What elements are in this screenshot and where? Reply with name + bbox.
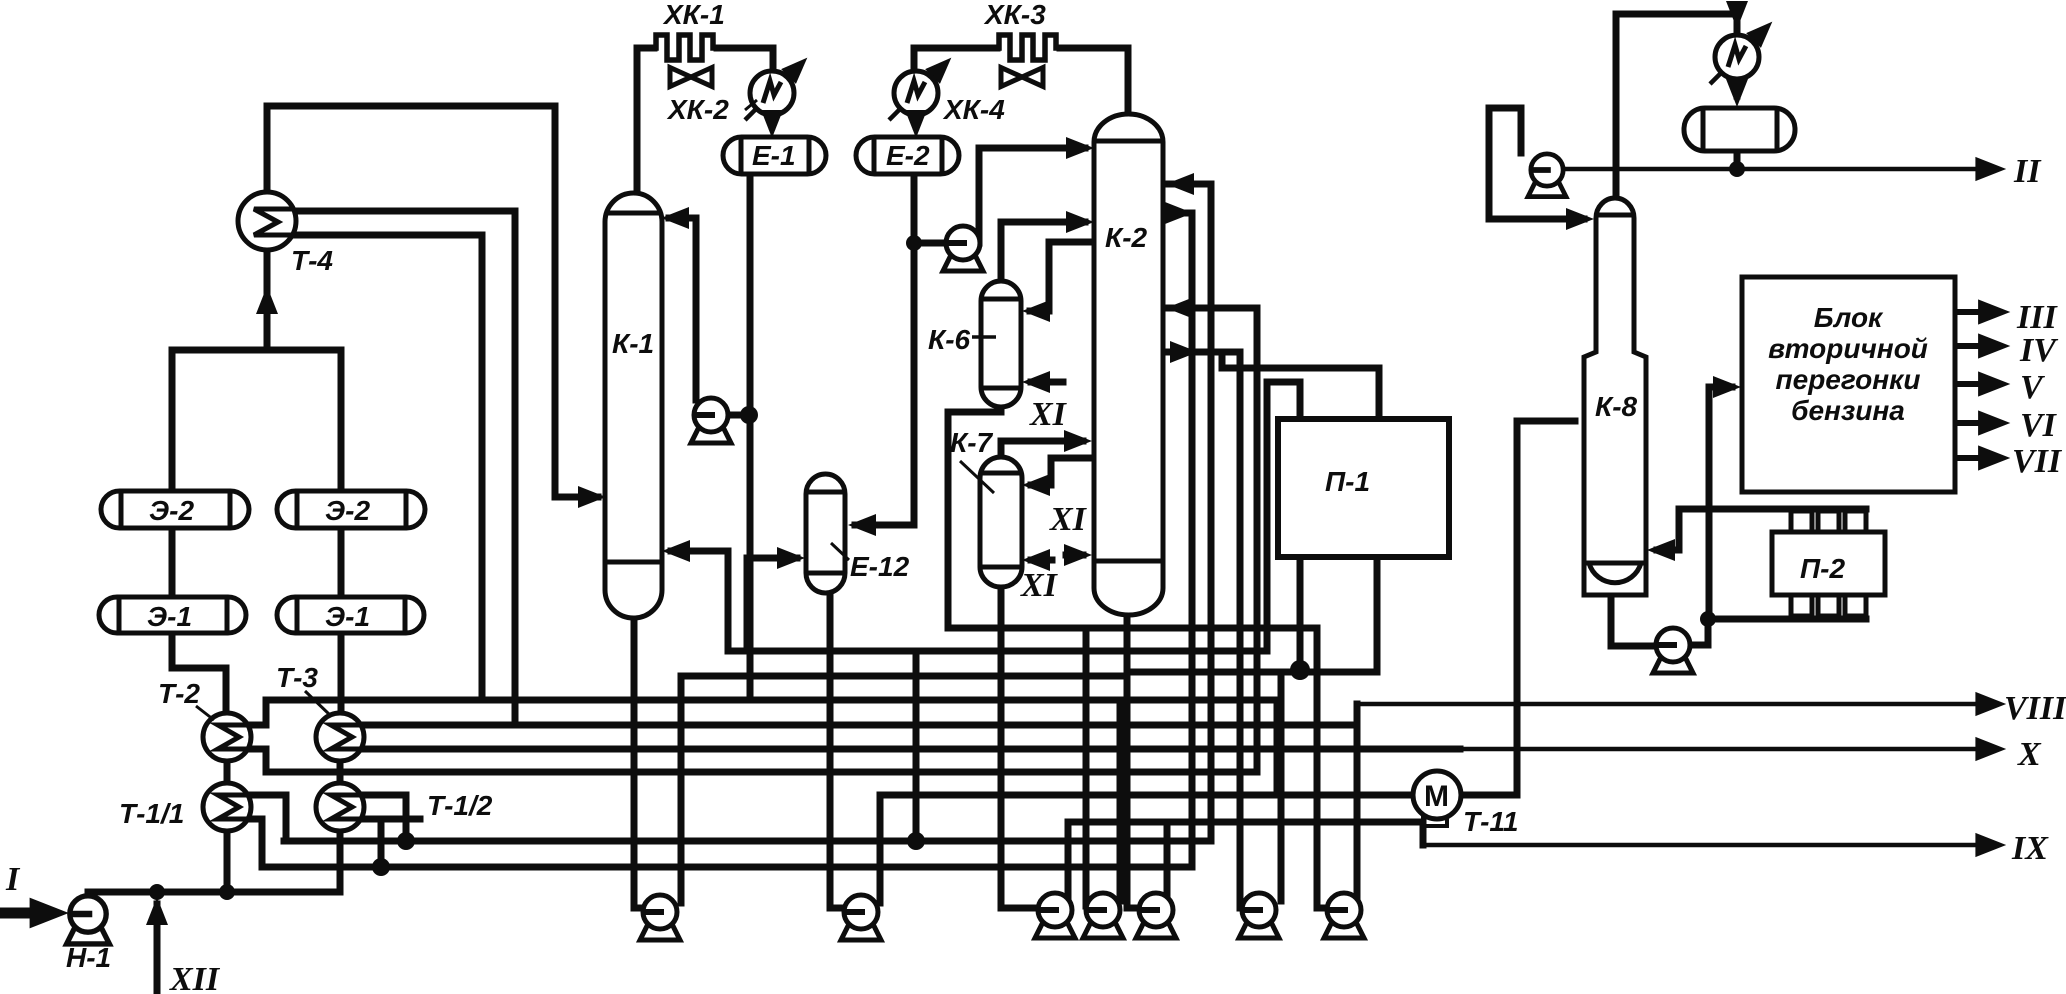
svg-text:Е-2: Е-2 [886,140,930,171]
arrowhead output IX [1975,833,2006,857]
wire K-1 overhead to XK-1 [637,48,654,196]
wire bus H1 [266,697,1277,704]
arrowhead stream I into H-1 [30,898,69,929]
node junction E-1 drain pump [740,406,758,424]
arrowhead K-2 draw into K-7 [1022,474,1050,496]
svg-text:XI: XI [1020,567,1059,604]
svg-text:V: V [2020,369,2045,406]
wire T-1/2 upper pipe [362,795,406,841]
svg-text:ХК-3: ХК-3 [983,0,1046,30]
column K-2 [1094,114,1163,615]
wire T-1/1 lower pipe [250,819,262,867]
pump K-8 reflux [1528,154,1566,197]
wire T-1/2 lower branch to H6 [378,819,385,867]
wire riser to gasoline block [1709,387,1732,619]
node junction P-1 outlet [1290,660,1310,680]
svg-text:Т-2: Т-2 [158,678,200,709]
svg-text:М: М [1424,780,1449,813]
wire K-6 bottoms bus H628 [948,407,1317,628]
arrowhead into E-2 [905,110,927,138]
node junction E-2 drain pump [906,235,922,251]
svg-text:Т-11: Т-11 [1463,806,1519,837]
wire H628 drop to pump4 [1083,628,1090,906]
arrowhead output X [1975,737,2006,761]
electrodehydrator E-2 left [101,491,249,528]
electrodehydrator E-2 right [277,491,425,528]
arrowhead return into K-2 lower [1166,297,1194,319]
wire branch to H5 [913,651,920,841]
arrowhead XI into K-7 [1022,549,1050,571]
wire XK-3 to K-2 [1060,48,1128,112]
pump K-8 bottoms [1653,628,1693,673]
wire T-4 lower pipe to bus H1 [294,235,482,700]
wire P-1 riser left [1267,382,1300,651]
svg-text:VI: VI [2020,407,2058,444]
wire main feed from H-1 [88,889,340,896]
wire K-1 reflux pump discharge [669,218,696,400]
svg-text:бензина: бензина [1791,395,1905,426]
arrowhead K-2 side draw upper [1165,202,1193,224]
wire XK-2 into E-1 [769,116,776,126]
heat exchanger T-2 [203,713,251,761]
wire K-2 bottoms to pump5 [1127,585,1141,908]
pump K-7 bottoms [1035,893,1075,938]
wire K-7 overhead to K-2 [1001,441,1083,457]
svg-text:вторичной: вторичной [1768,333,1928,364]
svg-text:XI: XI [1049,501,1088,538]
wire P-1 bottom left outlet [1297,557,1304,670]
arrowhead K-6 overhead into K-2 [1066,211,1094,233]
svg-text:VIII: VIII [2004,690,2066,727]
wire K-2 side draw to pump6 [1240,352,1244,908]
valve XK-1 [670,68,712,87]
wire T-2 upper pipe [250,703,266,725]
pump K-1 reflux [691,398,731,443]
stripper K-7 [980,457,1022,587]
arrowhead output II [1975,157,2006,181]
svg-text:X: X [2017,736,2042,773]
svg-text:Е-12: Е-12 [850,551,910,582]
svg-text:Т-1/2: Т-1/2 [427,790,493,821]
wire E-2L to E-1L [169,527,176,598]
arrowhead XI into K-2 [1064,544,1092,566]
wire T-11 feed bus [880,792,1412,799]
wire E-1R to T-3 [338,632,345,712]
svg-text:Э-2: Э-2 [325,495,370,526]
wire E-12 bottoms to pump2 [830,594,843,908]
svg-text:перегонки: перегонки [1776,364,1921,395]
column K-1 [605,193,662,618]
arrowhead E-2 drain into E-12 [848,514,876,536]
svg-text:II: II [2013,153,2042,190]
arrowhead P-2 return into K-8 [1647,539,1675,561]
wire T-3 to T-1/2 [337,761,344,784]
svg-text:Е-1: Е-1 [752,140,796,171]
pump E-12 bottoms [841,895,881,940]
wire XK-4 into E-2 [913,116,920,126]
arrowhead condenser into drum [1726,79,1748,107]
wire E-1L to T-2 [172,632,226,712]
heat exchanger T-11 [1413,771,1461,826]
wire E-1 pump suction [711,412,750,419]
wire bus H4 [266,769,1257,776]
pump K-1 bottoms [640,895,680,940]
wire outputs III-VII [1955,309,1996,315]
wire T-4 top loop to K-1 feed [267,106,598,497]
svg-text:П-2: П-2 [1800,553,1845,584]
heat exchanger T-1/2 [316,783,364,831]
electrodehydrator E-1 left [99,597,246,633]
pump 6 [1239,893,1279,938]
wire K-2 to K-7 feed [1031,458,1094,485]
electrodehydrator E-1 right [277,597,424,633]
arrowhead feed into K-1 left [578,486,606,508]
arrowhead pump feed into K-2 [1066,137,1094,159]
wire header rectangle [172,350,341,492]
wire K-6 overhead to K-2 [1001,222,1085,281]
wire XK-4 line left [914,48,997,70]
svg-text:К-6: К-6 [928,324,971,355]
svg-text:Т-4: Т-4 [291,245,333,276]
wire K-2 stub y308 [1163,305,1257,312]
wire T-2 to T-1/1 [224,761,231,784]
svg-text:П-1: П-1 [1325,466,1370,497]
wire T-1/1 to feed line [224,831,231,892]
svg-text:Н-1: Н-1 [66,942,111,973]
node junction K-8 pump discharge [1700,611,1716,627]
arrowhead K-2 draw into K-6 [1022,300,1050,322]
wire K-2 return lower [1189,213,1196,867]
drum E-2 [856,137,959,174]
arrowhead output VII [1978,445,2010,470]
svg-text:К-7: К-7 [950,427,994,458]
wire K-7 bottoms to pump3 [1001,587,1037,908]
node junction branch on H5 [907,832,925,850]
pump E-2 bottoms [943,226,983,271]
drum E-1 [723,137,826,174]
wire stream I inlet [4,908,40,919]
svg-text:К-1: К-1 [612,328,654,359]
wire E-1 drain [747,173,754,700]
wire hot jet to K-1 [671,551,1267,651]
arrowhead output VIII [1975,692,2006,716]
node junction T-1/1 feed [219,884,235,900]
arrowhead output IV [1978,333,2010,358]
svg-text:IV: IV [2019,332,2058,369]
wire E-2R to E-1R [338,527,345,598]
wire T-1/2 to feed line [337,831,344,892]
wire P-1 bottom right outlet [1374,557,1381,672]
heat exchanger T-4 [238,192,296,250]
node junction drum drain on II [1729,161,1745,177]
wire T-4 upper pipe to bus H2 [294,211,515,724]
pump 4 [1083,893,1123,938]
wire bus X product [363,746,1460,753]
wire P-2 bottom header [1708,616,1866,623]
wire bus H2 [363,722,1357,729]
heat exchanger T-3 [316,713,364,761]
arrowhead into T-4 [256,286,278,314]
arrowhead into E-1 [761,110,783,138]
wire bus H5 [284,838,1211,845]
wire T-11 to K-8 riser [1462,421,1575,795]
svg-text:ХК-4: ХК-4 [942,94,1005,125]
valve XK-3 [1001,68,1043,87]
heat exchanger T-1/1 [203,783,251,831]
svg-text:Э-1: Э-1 [147,601,192,632]
wire pump5 discharge [1164,822,1171,901]
wire K-2 draw drop H4 [1254,308,1261,772]
vessel E-12 [806,474,845,593]
svg-text:I: I [5,861,21,898]
wire K-2 stub y213 [1163,210,1192,217]
wire VIII product [1357,702,1996,707]
wire K-8 bottoms to pump [1611,595,1655,646]
svg-text:Э-2: Э-2 [149,495,194,526]
arrowhead output V [1978,371,2010,396]
svg-text:XI: XI [1029,396,1068,433]
wire E-2 pump discharge to K-2 [979,148,1085,243]
wire XI stub into K-6 [1031,379,1063,386]
arrowhead K-7 overhead into K-2 [1064,430,1092,452]
wire K-2 stub y352 [1163,349,1240,356]
arrowhead return into K-2 upper [1166,173,1194,195]
wire XI stub into K-7 [1031,557,1052,564]
node junction T-1/2 lower on H6 [372,858,390,876]
furnace P-1 [1278,419,1449,557]
arrowhead output VI [1978,410,2010,435]
pump H-1 [67,896,110,944]
wire H1 drop to T-11 [1274,700,1281,795]
svg-text:Блок: Блок [1814,302,1884,333]
wire E-2 drain to E-12 [855,173,914,525]
wire pump1 discharge bus H676 [681,673,1127,680]
arrowhead hot jet into E-12 [777,547,805,569]
svg-text:К-2: К-2 [1105,222,1148,253]
wire drum drain [1734,150,1741,169]
finned section XK-3 [995,35,1060,60]
arrowhead hot jet into K-1 [662,540,690,562]
reflux drum K-8 [1684,108,1795,151]
node junction XII feed [149,884,165,900]
wire cooler to drum [1734,81,1741,96]
arrowhead reflux into K-8 [1566,208,1594,230]
wire K-8 pump discharge [1691,619,1708,645]
wire K-2 return upper [1208,184,1215,841]
wire II product line [1564,167,1996,172]
wire K-8 overhead [1616,14,1737,198]
wire bus H6 [262,864,1192,871]
pump 5 [1136,893,1176,938]
arrowhead output III [1978,299,2010,324]
svg-text:Э-1: Э-1 [325,601,370,632]
wire electrodehydrator header to T-4 [264,252,271,350]
wire T-2 lower pipe [250,749,266,769]
wire hot jet branch to E-12 [747,558,797,651]
wire stream XII inlet [154,904,161,994]
wire pump2 discharge [877,795,884,903]
svg-text:VII: VII [2012,443,2063,480]
furnace P-2 [1772,511,1885,616]
wire K-2 stub y184 [1163,181,1211,188]
wire H628 drop to pump7 [1317,628,1326,908]
wire IX product [1423,843,1996,848]
finned section XK-1 [652,35,717,60]
air cooler XK-4 [889,50,959,120]
wire K-2 draw to P-1 top right [1222,352,1379,419]
svg-text:III: III [2016,299,2058,336]
wire P-2 top header to K-8 [1657,509,1866,550]
wire XK-1 to XK-2 [717,48,773,70]
svg-text:IX: IX [2011,830,2049,867]
air cooler XK-2 [745,50,815,120]
wire T-1/1 upper pipe [250,795,286,841]
arrowhead feed into block box [1713,376,1741,398]
wire transfer bus H672 [1127,669,1377,676]
wire K-2 to K-6 feed [1030,242,1094,311]
svg-text:Т-3: Т-3 [276,662,318,693]
arrowhead stream XII [146,897,168,925]
pump 7 [1324,893,1364,938]
wire pump4 discharge [1117,700,1124,901]
wire K-8 reflux L pipe [1489,108,1584,219]
arrowhead XI into K-6 [1022,371,1050,393]
wire T-1/2 lower pipe [362,816,420,823]
wire E-2 pump suction [914,240,947,247]
svg-text:ХК-1: ХК-1 [662,0,725,30]
wire pump6 discharge [1278,672,1285,901]
air cooler K-8 overhead [1710,14,1780,84]
svg-text:ХК-2: ХК-2 [666,94,729,125]
wire XI stub into K-2 [1066,552,1083,559]
svg-text:К-8: К-8 [1595,391,1638,422]
wire pump7 discharge VIII riser [1354,704,1361,901]
svg-text:Т-1/1: Т-1/1 [119,798,184,829]
arrowhead K-2 side draw lower [1170,341,1198,363]
arrowhead into K-8 condenser [1726,1,1748,29]
wire K-1 bottoms to pump1 [634,591,642,908]
block secondary distillation box [1742,277,1955,492]
wire pump3 discharge to IX [1068,822,1423,901]
column K-8 [1584,198,1646,595]
svg-text:XII: XII [169,961,221,994]
node junction T-1/2 upper on H5 [397,832,415,850]
stripper K-6 [981,281,1021,407]
arrowhead reflux into K-1 top [661,207,689,229]
